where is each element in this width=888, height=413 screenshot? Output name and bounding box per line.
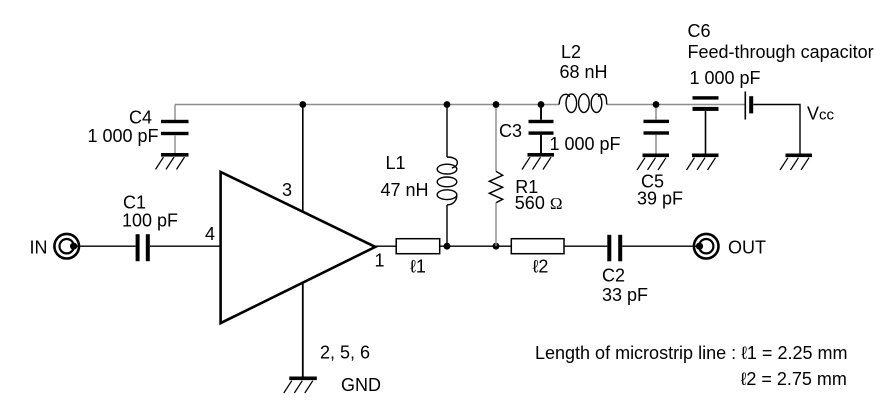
C2 label xyxy=(602,266,648,306)
capacitor C6 feed-through xyxy=(693,96,719,153)
ground C5 xyxy=(637,154,669,171)
wire IN to C1 xyxy=(76,245,136,247)
svg-text:47 nH: 47 nH xyxy=(381,180,429,200)
junction dot C3 xyxy=(538,101,545,108)
svg-text:C6: C6 xyxy=(688,21,711,41)
C1 label xyxy=(122,193,178,231)
l1 label xyxy=(410,257,426,277)
junction dot pin3 xyxy=(299,101,306,108)
capacitor C2 xyxy=(607,235,622,261)
svg-text:ℓ2 = 2.75 mm: ℓ2 = 2.75 mm xyxy=(741,369,847,389)
wire top bus left segment xyxy=(175,104,559,106)
svg-text:560 Ω: 560 Ω xyxy=(515,193,563,213)
capacitor C4 xyxy=(161,105,189,154)
wire l2 to C2 xyxy=(564,245,607,247)
wire top bus right segment xyxy=(607,104,745,106)
inductor L2 xyxy=(559,94,607,113)
svg-text:L1: L1 xyxy=(386,153,406,173)
ground C6 xyxy=(687,154,719,171)
ground GND pin xyxy=(284,377,317,394)
svg-text:3: 3 xyxy=(282,180,292,200)
wire Vcc xyxy=(753,105,800,154)
capacitor C3 xyxy=(529,105,554,154)
resistor R1 xyxy=(489,105,502,247)
wire l1 to l2 xyxy=(440,245,512,247)
microstrip line l1 xyxy=(396,239,440,254)
inductor L1 xyxy=(437,105,457,247)
svg-text:68 nH: 68 nH xyxy=(560,62,608,82)
svg-text:C2: C2 xyxy=(602,266,625,286)
ground Vcc xyxy=(780,154,812,171)
junction dot R1 bottom xyxy=(493,243,500,250)
pin 1 label xyxy=(375,251,385,271)
connector OUT xyxy=(694,234,719,259)
pin 3 label xyxy=(282,180,292,200)
svg-text:Feed-through capacitor: Feed-through capacitor xyxy=(688,42,874,62)
ground C3 xyxy=(522,153,554,170)
microstrip line l2 xyxy=(511,239,564,254)
svg-text:2, 5, 6: 2, 5, 6 xyxy=(320,343,370,363)
IN label xyxy=(30,238,48,258)
capacitor C5 xyxy=(644,105,670,154)
Vcc label xyxy=(807,104,835,124)
wire C2 to OUT xyxy=(622,245,697,247)
svg-text:39 pF: 39 pF xyxy=(637,189,683,209)
svg-text:L2: L2 xyxy=(561,42,581,62)
feed-through bulkhead plates xyxy=(745,92,753,120)
svg-text:1 000 pF: 1 000 pF xyxy=(550,134,621,154)
svg-text:1: 1 xyxy=(375,251,385,271)
svg-text:IN: IN xyxy=(30,238,48,258)
GND label xyxy=(341,375,381,395)
C5 label xyxy=(637,172,683,209)
l2 label xyxy=(533,257,549,277)
junction dot L1 top xyxy=(444,101,451,108)
C4 label xyxy=(88,108,159,147)
svg-text:OUT: OUT xyxy=(728,238,766,258)
junction dot C5 xyxy=(653,101,660,108)
svg-text:1 000 pF: 1 000 pF xyxy=(690,68,761,88)
junction dot L1 bottom xyxy=(444,243,451,250)
svg-text:ℓ2: ℓ2 xyxy=(533,257,549,277)
ground C4 xyxy=(156,153,189,169)
OUT label xyxy=(728,238,766,258)
wire pin 3 branch xyxy=(302,105,304,212)
junction dot R1 top xyxy=(493,101,500,108)
capacitor C1 xyxy=(136,234,150,261)
svg-text:1 000 pF: 1 000 pF xyxy=(88,126,159,146)
L2 label xyxy=(560,42,608,82)
svg-text:33 pF: 33 pF xyxy=(602,285,648,305)
wire apex to l1 xyxy=(375,245,396,247)
note microstrip lengths line 1 xyxy=(535,343,847,363)
svg-text:Vcc: Vcc xyxy=(807,104,835,124)
svg-text:4: 4 xyxy=(205,224,215,244)
svg-text:C1: C1 xyxy=(123,193,146,213)
wire pins 2,5,6 to ground xyxy=(302,283,304,377)
wire C1 to pin4 xyxy=(150,245,221,247)
svg-text:C3: C3 xyxy=(499,121,522,141)
svg-text:C4: C4 xyxy=(129,108,152,128)
svg-text:Length of microstrip line : ℓ1: Length of microstrip line : ℓ1 = 2.25 mm xyxy=(535,343,847,363)
R1 label xyxy=(515,177,563,213)
svg-text:ℓ1: ℓ1 xyxy=(410,257,426,277)
svg-text:100 pF: 100 pF xyxy=(122,211,178,231)
pins 2,5,6 label xyxy=(320,343,370,363)
L1 label xyxy=(381,153,429,200)
op-amp U1 triangle xyxy=(221,172,376,323)
C6 labels xyxy=(688,21,874,88)
note microstrip lengths line 2 xyxy=(741,369,847,389)
C3 label xyxy=(499,121,621,154)
connector IN xyxy=(54,234,79,259)
pin 4 label xyxy=(205,224,215,244)
svg-text:GND: GND xyxy=(341,375,381,395)
